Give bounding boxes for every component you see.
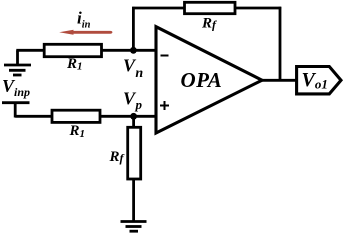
ground (top-left) bbox=[4, 50, 31, 75]
svg-text:R1: R1 bbox=[66, 56, 83, 73]
output tag V_o1 bbox=[297, 67, 341, 94]
wire V_inp to R1 bottom bbox=[15, 115, 53, 118]
wire R1 to op-amp non-inverting input bbox=[100, 115, 156, 118]
op-amp minus sign bbox=[161, 55, 169, 57]
svg-text:Vp: Vp bbox=[123, 89, 143, 112]
node V_n junction dot bbox=[130, 47, 137, 54]
wire feedback top right segment bbox=[235, 7, 281, 10]
op-amp plus sign bbox=[160, 105, 169, 107]
wire V_inp terminal down bbox=[14, 103, 17, 118]
wire op-amp output bbox=[261, 79, 298, 82]
svg-text:Vn: Vn bbox=[123, 56, 143, 81]
wire R1 to op-amp inverting input bbox=[102, 49, 157, 52]
wire ground to R1 top bbox=[16, 49, 45, 52]
svg-text:Rf: Rf bbox=[201, 16, 217, 32]
terminal V_inp bbox=[2, 101, 30, 104]
wire V_n node up to feedback bbox=[132, 7, 135, 51]
resistor R1 (top) bbox=[44, 44, 101, 56]
resistor Rf (feedback) bbox=[185, 2, 236, 13]
op-amp U1 (OPA) bbox=[156, 27, 262, 133]
svg-text:OPA: OPA bbox=[181, 68, 223, 92]
svg-text:R1: R1 bbox=[69, 123, 86, 140]
wire Rf to ground bbox=[132, 179, 135, 221]
resistor Rf (to ground) bbox=[128, 127, 141, 179]
node V_p junction dot bbox=[130, 113, 137, 120]
wire V_p node down to Rf bbox=[132, 116, 135, 128]
current arrow i_in bbox=[59, 30, 112, 35]
wire feedback right vertical down to output bbox=[279, 7, 282, 81]
svg-text:Vinp: Vinp bbox=[2, 76, 30, 99]
wire feedback top left segment bbox=[132, 7, 185, 10]
svg-text:iin: iin bbox=[77, 9, 91, 31]
ground (bottom) bbox=[121, 222, 147, 232]
svg-text:Rf: Rf bbox=[109, 149, 125, 165]
resistor R1 (bottom) bbox=[52, 110, 100, 122]
